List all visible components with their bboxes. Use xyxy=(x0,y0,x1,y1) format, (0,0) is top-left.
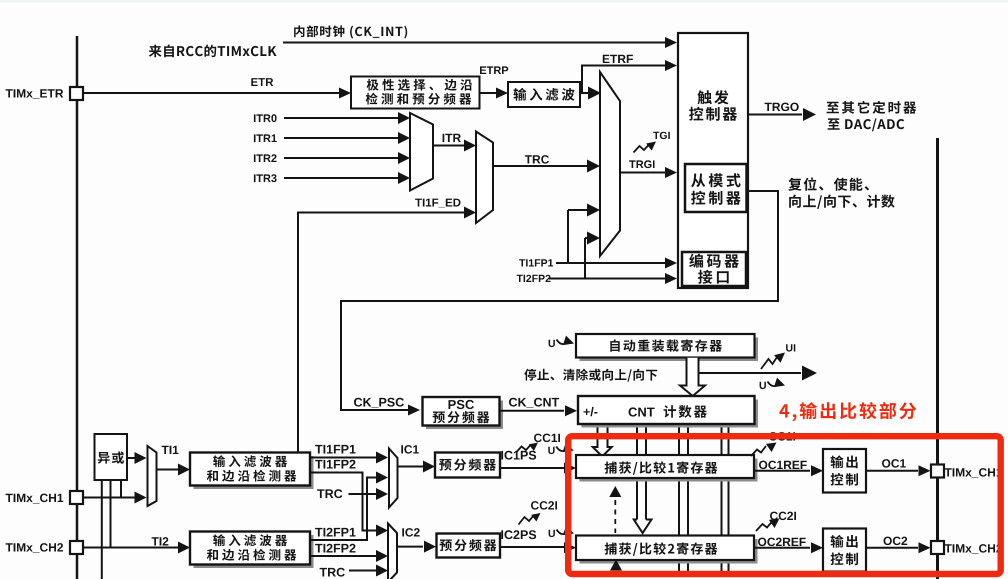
label ITR xyxy=(443,134,461,142)
label TI2FP2 xyxy=(315,544,355,553)
label IC2PS xyxy=(501,530,536,539)
arrow IC1PS into capture1 xyxy=(564,463,576,474)
wire ITR2 xyxy=(284,157,398,159)
label ETR xyxy=(251,78,273,86)
block 预分频器 (IC2 prescaler) xyxy=(437,534,501,558)
hollow arrow auto-reload to CNT xyxy=(680,358,705,396)
arrow TRGI into trigger controller xyxy=(665,167,677,178)
wire TI1FP1 xyxy=(310,457,376,459)
label 向上/向下、计数 xyxy=(789,195,895,209)
label ITR2 xyxy=(254,154,277,162)
label TRC (IC1) xyxy=(317,489,342,498)
arrow ITR2 into mux xyxy=(398,152,410,164)
arrow IC2 into prescaler 2 xyxy=(424,541,436,553)
label OC1REF xyxy=(759,461,807,470)
wire OC1 xyxy=(866,470,918,472)
block 输入滤波 xyxy=(508,82,580,107)
label CK_PSC xyxy=(354,398,404,408)
block 异或 xyxy=(95,434,128,480)
mux IC2 select xyxy=(388,524,397,579)
arrow ETRF into trigger controller xyxy=(665,60,677,71)
wire CK_INT xyxy=(283,42,666,44)
label OC1 xyxy=(882,459,906,468)
arrow TI2FP2 riser into mux xyxy=(585,237,588,239)
wire TI1FP1 to trigger mux and encoder xyxy=(567,210,569,263)
label OC2 xyxy=(884,537,908,546)
right pin rail wire xyxy=(936,138,939,579)
block 预分频器 (IC1 prescaler) xyxy=(435,453,500,478)
capture arrow up into capture2 bottom xyxy=(610,560,622,571)
arrow TI1F_ED into TRC mux xyxy=(464,207,476,219)
label UI xyxy=(786,344,795,351)
label TI2FP2 xyxy=(517,275,551,282)
arrow filtered ETR into mux xyxy=(588,87,601,100)
wire TI2FP1 cross up xyxy=(310,478,376,541)
mux TRC select xyxy=(476,132,493,224)
label 至 DAC/ADC xyxy=(828,118,905,131)
dashed capture arrow up into capture1 xyxy=(614,500,616,533)
wire IC2 xyxy=(397,546,423,548)
wire IC1 xyxy=(398,466,424,468)
label IC1PS xyxy=(501,451,536,460)
pin TIMx_CH2 (left) xyxy=(70,541,83,554)
label TRC (IC2) xyxy=(320,568,345,577)
wire ETRP xyxy=(480,92,497,94)
label ETRP xyxy=(480,66,508,74)
event arrow U (capture2) xyxy=(549,530,555,537)
mux IC1 select xyxy=(389,449,398,508)
arrow CH1 into TI1 mux xyxy=(135,492,147,504)
wire update event xyxy=(699,372,802,374)
wire OC1REF xyxy=(754,470,810,472)
label IC1 xyxy=(401,445,419,454)
label ITR0 xyxy=(254,114,277,122)
wire TI2FP2 xyxy=(310,555,376,557)
arrow CK_INT into trigger controller xyxy=(665,37,677,48)
arrow OC1REF into output control 1 xyxy=(811,465,823,476)
left pin rail wire xyxy=(76,36,79,579)
block 输入滤波器和边沿检测器 (channel 2) xyxy=(194,535,314,568)
arrow TI1FP2 into IC2 mux xyxy=(376,525,388,537)
label ETRF xyxy=(603,55,633,63)
wire TI2 xyxy=(83,547,178,549)
block CNT 计数器 (with shadow) xyxy=(582,400,759,428)
wire OC2 xyxy=(866,547,918,549)
label 内部时钟 (CK_INT) xyxy=(294,25,407,38)
block PSC 预分频器 (with shadow) xyxy=(426,401,503,430)
label OC2REF xyxy=(758,538,806,547)
label TI1FP1 xyxy=(315,445,356,454)
pin TIMx_CH1 (right) xyxy=(931,465,944,478)
wire ITR3 xyxy=(284,177,398,179)
label TI1FP1 xyxy=(519,259,553,266)
label TRGI xyxy=(629,160,654,168)
block 捕获/比较2寄存器 (with shadow) xyxy=(580,539,758,564)
pin TIMx_CH2 (right) xyxy=(931,541,944,554)
mux TI1 xor select xyxy=(148,446,157,506)
arrow TI2FP2 into IC2 mux xyxy=(376,550,388,562)
arrow ITR1 into mux xyxy=(398,132,410,144)
label TI1FP2 xyxy=(315,460,355,469)
block 触发控制器 xyxy=(678,33,748,288)
wire TI2FP2 to trigger mux and encoder xyxy=(584,238,586,279)
arrow CK_CNT into CNT xyxy=(565,405,577,416)
arrow TI2FP2 into encoder interface xyxy=(665,273,677,284)
arrow TI2 into input filter 2 xyxy=(178,542,190,554)
block 输出控制 (channel 1) xyxy=(823,449,866,493)
arrow TI1FP1 into encoder interface xyxy=(665,258,677,269)
wire TIMx_CH1 to TI1 mux xyxy=(83,497,135,499)
wire TRGI xyxy=(620,172,666,174)
arrow IC1 into prescaler 1 xyxy=(423,461,435,473)
bus wire pair 3 xyxy=(678,424,680,572)
arrow TI1 into input filter 1 xyxy=(178,464,190,476)
wire ETR xyxy=(83,92,340,94)
zigzag event arrow CC1I (right) xyxy=(751,446,766,456)
arrow TRC into trigger mux xyxy=(587,160,600,173)
wire ETRF branch xyxy=(582,66,666,94)
arrow TI1FP1 into IC1 mux xyxy=(376,452,388,464)
label 复位、使能、 xyxy=(788,177,869,190)
wire CK_CNT xyxy=(500,410,565,412)
bus wire pair 4 xyxy=(721,424,723,572)
mux trigger select (tall) xyxy=(600,72,620,256)
arrow OC2 to pin xyxy=(919,542,931,553)
label 来自RCC的TIMxCLK xyxy=(149,45,277,58)
arrow TRC into IC2 mux xyxy=(376,565,388,577)
wire TI1FP2 cross down xyxy=(310,473,376,531)
wire XOR feed from CH3 xyxy=(101,480,103,579)
arrow OC2REF into output control 2 xyxy=(811,542,823,553)
wire IC2PS xyxy=(500,546,564,548)
block 捕获/比较1寄存器 (with shadow) xyxy=(580,459,758,482)
arrow XOR output into TI1 mux xyxy=(135,452,147,464)
wire ITR1 xyxy=(284,137,398,139)
wire XOR feed from CH2 xyxy=(110,480,112,548)
arrow ETRP into input filter xyxy=(496,88,508,99)
bus wire pair CNT to capture2 xyxy=(636,424,638,522)
label IC2 xyxy=(402,528,419,537)
arrow CK_PSC into PSC xyxy=(408,405,420,416)
wire TI1F_ED xyxy=(298,213,464,453)
wire XOR feed from CH1 xyxy=(120,480,122,498)
arrow TRGO xyxy=(803,108,816,121)
wire ITR0 xyxy=(284,117,398,119)
zigzag event arrow CC2I (left) xyxy=(519,515,535,525)
wire TRC into IC2 mux xyxy=(349,570,376,572)
label CC1I (left) xyxy=(534,434,560,443)
wire OC2REF xyxy=(754,547,810,549)
arrow TRC into IC1 mux xyxy=(376,488,388,500)
wire IC1PS xyxy=(500,467,564,469)
arrow ITR into TRC mux xyxy=(464,140,476,152)
label CC1I (right) xyxy=(769,432,795,441)
label TI1F_ED xyxy=(415,199,460,208)
label CC2I (right) xyxy=(770,512,796,520)
pin TIMx_CH1 (left) xyxy=(70,491,83,504)
zigzag event arrow CC2I (right) xyxy=(756,521,773,531)
pin TIMx_ETR xyxy=(70,87,83,100)
arrow TI1FP1 riser into mux xyxy=(568,209,588,211)
arrow ITR0 into mux xyxy=(398,112,410,124)
block 自动重装载寄存器 (with shadow) xyxy=(580,338,759,362)
wire TRGO xyxy=(748,114,802,116)
wire TI1 xyxy=(157,469,179,471)
event arrow U into auto-reload register xyxy=(549,340,555,347)
block 极性选择、边沿检测和预分频器 xyxy=(351,77,480,109)
label TRC xyxy=(525,155,549,164)
wire ETRF to trigger mux xyxy=(580,92,590,94)
block 输出控制 (channel 2) xyxy=(823,529,866,572)
red highlight rectangle (output compare section) xyxy=(568,436,1001,574)
event arrow U below update line xyxy=(760,382,766,389)
label TI1 xyxy=(162,446,179,454)
wire ITR xyxy=(433,145,464,147)
label 4,输出比较部分 (red) xyxy=(779,402,916,421)
arrow update event xyxy=(802,366,817,381)
arrow IC2PS into capture2 xyxy=(564,542,576,553)
block 编码器接口 xyxy=(682,252,746,286)
wire TRC into IC1 mux xyxy=(349,493,377,495)
zigzag event arrow CC1I (left) xyxy=(516,445,531,453)
label TI2FP1 xyxy=(315,528,356,537)
wire XOR output xyxy=(127,457,135,459)
arrow ITR3 into mux xyxy=(398,172,410,184)
block 输入滤波器和边沿检测器 (channel 1) xyxy=(194,456,314,489)
label CK_CNT xyxy=(509,398,559,408)
mux ITR select xyxy=(410,113,433,191)
label CC2I (left) xyxy=(531,501,557,510)
wire TRC xyxy=(493,165,588,167)
arrow OC1 to pin xyxy=(919,465,931,476)
arrow TI2FP1 into IC1 mux xyxy=(376,472,388,484)
arrow ETR into polarity box xyxy=(339,88,351,99)
event arrow U (capture1) xyxy=(548,447,554,454)
hollow arrowhead into capture2 xyxy=(634,520,652,534)
label 停止、清除或向上/向下 xyxy=(524,369,657,382)
zigzag event arrow TGI xyxy=(634,144,651,153)
label ITR3 xyxy=(254,174,277,182)
block 从模式控制器 xyxy=(685,164,747,212)
label ITR1 xyxy=(254,134,277,142)
label TGI xyxy=(653,132,670,139)
bus wire pair CNT to capture1 (hollow arrow) xyxy=(593,424,612,457)
zigzag event arrow UI xyxy=(761,356,778,370)
label TI2 xyxy=(152,537,169,545)
label 至其它定时器 xyxy=(827,101,917,114)
label TRGO xyxy=(765,103,799,112)
wire slave mode controller to prescaler clock xyxy=(341,191,778,410)
